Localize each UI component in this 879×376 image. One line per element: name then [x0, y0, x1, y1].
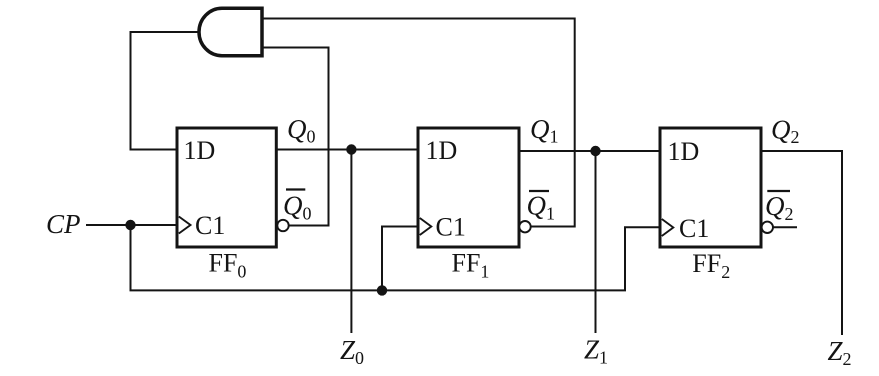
- svg-text:C1: C1: [436, 213, 466, 242]
- svg-text:1D: 1D: [668, 137, 700, 166]
- svg-text:C1: C1: [195, 211, 225, 240]
- svg-text:C1: C1: [679, 214, 709, 243]
- svg-text:CP: CP: [46, 209, 81, 239]
- svg-text:1D: 1D: [184, 136, 216, 165]
- svg-text:1D: 1D: [426, 136, 458, 165]
